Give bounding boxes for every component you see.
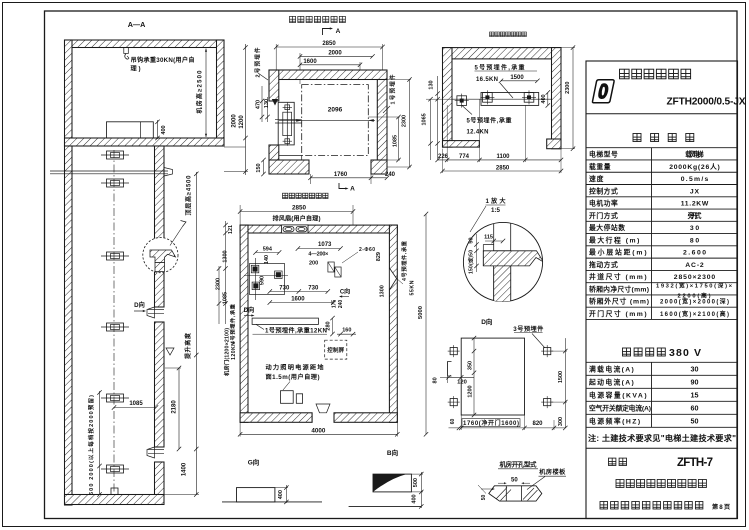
- A-A guide rail bracket 5: [101, 397, 129, 399]
- shaft plan landing door frame outer: [278, 102, 294, 145]
- A-A detail balloon wall stub: [155, 263, 165, 272]
- A-A guide rail bracket 3: [101, 255, 129, 257]
- shaft plan door anchor top: [285, 105, 290, 110]
- svg-text:4000: 4000: [311, 427, 326, 434]
- pit plan right dim 400: [547, 93, 549, 106]
- pit plan title: [490, 32, 495, 37]
- svg-text:开 门 方 式: 开 门 方 式: [589, 211, 618, 220]
- machine room right wall anchor wedge: [389, 268, 396, 290]
- svg-text:1号预埋件,承重12KN: 1号预埋件,承重12KN: [265, 327, 328, 335]
- shaft plan door rails: [275, 119, 302, 121]
- power voltage heading: [623, 348, 631, 356]
- svg-text:30: 30: [690, 225, 699, 232]
- svg-text:D向: D向: [244, 306, 255, 314]
- D-view door opening rect: [461, 338, 524, 415]
- rope hole symbols: [328, 262, 334, 272]
- svg-text:机房门(1200×2100): 机房门(1200×2100): [222, 328, 230, 376]
- svg-text:机房高≥2500: 机房高≥2500: [196, 70, 204, 114]
- svg-text:1500: 1500: [510, 75, 524, 81]
- A-A machine room left wall: [65, 40, 73, 146]
- shaft plan left inner step lines: [279, 155, 302, 157]
- company logo: [592, 80, 614, 103]
- svg-text:2000Kg(26人): 2000Kg(26人): [669, 162, 720, 171]
- title block outline: [586, 61, 738, 519]
- pit plan leader line: [500, 83, 513, 98]
- shaft plan left wall upper: [269, 70, 279, 101]
- svg-text:2000: 2000: [232, 114, 238, 128]
- svg-text:50: 50: [469, 237, 475, 243]
- svg-text:2-Φ60: 2-Φ60: [359, 247, 375, 253]
- svg-text:机房开孔型式: 机房开孔型式: [500, 460, 538, 469]
- svg-text:350: 350: [467, 361, 473, 370]
- shaft plan dim 2850: [276, 46, 382, 48]
- A-A shaft right wall middle: [155, 322, 165, 447]
- D-view anchor bolt 4: [544, 399, 551, 406]
- pit plan bottom dims 226 774 1100: [438, 159, 561, 161]
- svg-text:起动电流(A): 起动电流(A): [588, 378, 634, 387]
- svg-text:5000: 5000: [418, 306, 424, 319]
- svg-text:1065: 1065: [422, 113, 428, 125]
- svg-text:594: 594: [263, 247, 273, 253]
- svg-text:1200: 1200: [239, 115, 245, 129]
- A-A top landing level lines: [50, 170, 168, 172]
- svg-text:A: A: [350, 186, 355, 193]
- machine room left wall: [240, 225, 248, 422]
- svg-text:控 制 方 式: 控 制 方 式: [589, 186, 618, 195]
- pit plan buffer beam: [481, 93, 539, 106]
- svg-text:240: 240: [338, 300, 344, 309]
- svg-text:1085: 1085: [129, 401, 143, 407]
- machine room dim 2850: [240, 211, 353, 213]
- svg-text:730: 730: [308, 286, 319, 292]
- pit plan bottom-left wall block: [443, 141, 480, 148]
- svg-text:120: 120: [457, 380, 467, 386]
- B-view block outline: [373, 474, 411, 492]
- svg-text:A—A: A—A: [128, 20, 146, 29]
- svg-text:1放大: 1放大: [486, 197, 507, 205]
- machine room motor unit frame: [250, 264, 285, 295]
- svg-text:50: 50: [511, 478, 518, 484]
- machine room top wall: [240, 225, 397, 233]
- svg-text:55KN: 55KN: [409, 280, 415, 295]
- machine room plan title: [283, 193, 288, 198]
- machine room exhaust fan vent: [282, 225, 309, 233]
- svg-text:最大行程 (m): 最大行程 (m): [589, 235, 639, 244]
- svg-text:第8页: 第8页: [711, 503, 730, 511]
- svg-text:3号预埋件: 3号预埋件: [513, 325, 544, 333]
- detail floor slab: [483, 251, 543, 266]
- svg-text:60: 60: [450, 419, 456, 425]
- pit plan bottom-right wall block: [547, 139, 561, 149]
- svg-text:机房楼板: 机房楼板: [539, 468, 566, 476]
- svg-text:D向: D向: [134, 301, 145, 309]
- A-A pit floor: [65, 495, 165, 505]
- svg-text:JX: JX: [690, 188, 700, 195]
- svg-text:5号预埋件,承重: 5号预埋件,承重: [475, 64, 525, 72]
- svg-text:300: 300: [558, 417, 564, 426]
- A-A shaft right wall lower: [155, 462, 165, 495]
- A-A guide rail bracket 6: [101, 468, 129, 470]
- svg-text:400: 400: [541, 94, 547, 103]
- svg-text:15: 15: [691, 391, 699, 400]
- svg-text:轿厢内净尺寸(mm): 轿厢内净尺寸(mm): [589, 284, 649, 293]
- svg-text:30: 30: [691, 365, 699, 374]
- pit plan left wall: [443, 48, 453, 148]
- svg-text:774: 774: [459, 154, 470, 160]
- A-A detail balloon sill bracket: [150, 250, 176, 263]
- pit plan anchor plate 2: [483, 93, 493, 103]
- shaft plan section mark A top: [323, 29, 331, 36]
- power table grid: [586, 361, 738, 363]
- svg-text:1932(宽)×1750(深)×: 1932(宽)×1750(深)×: [656, 282, 733, 290]
- svg-text:80: 80: [433, 377, 439, 383]
- svg-text:1100: 1100: [496, 154, 510, 160]
- machine room bottom wall left part: [240, 413, 312, 423]
- svg-text:150(或)50: 150(或)50: [468, 250, 475, 274]
- svg-text:16.5KN: 16.5KN: [476, 77, 498, 83]
- svg-text:50: 50: [691, 417, 699, 426]
- A-A machine room right wall: [217, 40, 225, 146]
- rope hole dim 1073: [298, 248, 341, 250]
- shaft plan bottom-right wall block: [371, 160, 387, 174]
- svg-text:C向: C向: [340, 288, 350, 296]
- shaft plan right wall: [377, 80, 387, 161]
- shaft plan right dim 2300: [409, 80, 411, 168]
- svg-text:175: 175: [331, 300, 337, 309]
- svg-text:井道尺寸 (mm): 井道尺寸 (mm): [589, 272, 647, 281]
- A-A detail balloon circle: [143, 238, 178, 273]
- A-A right side dims 2000 1200: [245, 44, 247, 175]
- shaft plan bottom-left wall block: [269, 160, 309, 174]
- svg-text:ZFTH2000/0.5-JX: ZFTH2000/0.5-JX: [667, 97, 746, 108]
- svg-text:满载电流(A): 满载电流(A): [589, 365, 634, 374]
- svg-text:电源容量(KVA): 电源容量(KVA): [589, 391, 647, 400]
- svg-text:140: 140: [264, 255, 270, 264]
- shaft plan dim 2000: [300, 55, 373, 57]
- G-view dim 400: [285, 485, 287, 503]
- shaft plan car width dim 2096: [279, 119, 375, 121]
- svg-text:1085: 1085: [222, 292, 228, 304]
- svg-text:12.4KN: 12.4KN: [467, 130, 489, 136]
- svg-text:820: 820: [532, 421, 543, 427]
- svg-text:空气开关额定电流(A): 空气开关额定电流(A): [589, 404, 651, 413]
- A-A guide rail bracket 2: [101, 182, 129, 184]
- svg-text:380 V: 380 V: [669, 347, 701, 359]
- A-A dim 1085 horizontal: [114, 407, 156, 409]
- svg-text:G向: G向: [248, 458, 260, 467]
- svg-text:最小层站距(m): 最小层站距(m): [589, 248, 647, 257]
- svg-text:4号预埋件,承重: 4号预埋件,承重: [400, 240, 408, 281]
- technical notes header: [633, 134, 641, 142]
- motor anchor pad 3: [275, 271, 283, 279]
- svg-text:2.600: 2.600: [683, 250, 706, 257]
- svg-text:2180: 2180: [172, 400, 178, 414]
- machine room bottom dim 4000: [240, 433, 397, 435]
- detail circle: [463, 222, 542, 301]
- detail slab step lines: [483, 244, 493, 246]
- svg-text:速 度: 速 度: [589, 174, 604, 183]
- pit plan top wall: [443, 48, 562, 59]
- svg-text:115: 115: [484, 235, 493, 241]
- svg-text:200: 200: [309, 261, 318, 267]
- svg-text:载 重 量: 载 重 量: [589, 162, 611, 171]
- shaft plan title: [290, 16, 296, 22]
- A-A landing level 2 lines: [148, 309, 164, 311]
- D-view dim 1500: [564, 338, 566, 428]
- machine room door sill: [316, 404, 330, 413]
- G-view platform: [237, 488, 275, 502]
- pit plan beam axis line: [452, 98, 552, 100]
- shaft plan dim 1600: [300, 64, 360, 66]
- svg-text:注: 土建技术要求见"电梯土建技术要求": 注: 土建技术要求见"电梯土建技术要求": [588, 433, 736, 443]
- pit plan anchor plate 1: [457, 96, 467, 106]
- A-A machine room floor slab: [65, 138, 225, 146]
- shaft plan right dim 1085: [398, 117, 400, 160]
- civil works note: [586, 447, 738, 449]
- svg-text:2850×2300: 2850×2300: [674, 274, 716, 281]
- junction boxes: [281, 391, 294, 404]
- svg-text:动力照明电源距地: 动力照明电源距地: [266, 364, 325, 372]
- svg-text:电 梯 型 号: 电 梯 型 号: [589, 150, 618, 159]
- svg-text:280: 280: [326, 321, 332, 330]
- svg-text:730: 730: [279, 286, 290, 292]
- svg-text:吊钩承重30KN(用户自: 吊钩承重30KN(用户自: [131, 56, 195, 64]
- shaft plan door centre rod: [286, 107, 288, 141]
- svg-text:载货电梯: 载货电梯: [685, 150, 704, 159]
- pit plan dim 2850: [443, 170, 562, 172]
- drawing title text: [616, 480, 624, 488]
- svg-text:11.2KW: 11.2KW: [681, 201, 709, 208]
- svg-text:1号预埋件: 1号预埋件: [388, 74, 396, 104]
- svg-text:提升高度: 提升高度: [184, 332, 192, 359]
- svg-text:旁开式: 旁开式: [687, 211, 702, 220]
- pit plan dim 1500: [501, 80, 537, 82]
- D-view dim 120: [449, 376, 475, 378]
- machine bedplate: [252, 318, 318, 324]
- svg-text:1400: 1400: [182, 462, 188, 476]
- shaft plan left dims 470 130: [261, 86, 263, 122]
- machine room bottom wall right part: [334, 413, 397, 423]
- svg-text:2096: 2096: [328, 107, 343, 114]
- machine room dim 1600: [270, 302, 334, 304]
- shaft plan landing door frame inner: [283, 112, 292, 135]
- technical spec table grid: [586, 147, 738, 149]
- svg-text:开门尺寸 (mm): 开门尺寸 (mm): [589, 309, 647, 318]
- A-A landing sill upper: [164, 168, 173, 177]
- B-view dim 500: [420, 472, 422, 508]
- svg-text:590: 590: [259, 276, 265, 285]
- D-view anchor bolt 2: [544, 348, 551, 355]
- B-view concrete wedge: [373, 474, 407, 492]
- pit plan right dim 2300: [572, 48, 574, 149]
- shaft plan left wall lower: [269, 145, 279, 160]
- A-A buffer block: [111, 488, 118, 495]
- motor anchor pad 1: [251, 265, 258, 273]
- shaft plan door anchor bottom: [285, 139, 290, 144]
- svg-text:面1.5m(用户自理): 面1.5m(用户自理): [266, 373, 320, 381]
- A-A machine base block: [107, 122, 154, 138]
- A-A shaft centerline: [113, 150, 115, 494]
- A-A detail balloon leader and flag: [170, 227, 183, 246]
- svg-text:829: 829: [376, 252, 382, 261]
- A-A machine room top wall: [65, 40, 225, 48]
- svg-text:90: 90: [691, 378, 699, 387]
- svg-text:1300: 1300: [222, 250, 228, 262]
- svg-text:150: 150: [256, 163, 262, 172]
- svg-text:2850: 2850: [292, 204, 307, 211]
- A-A level datum triangle: [166, 348, 174, 355]
- machine room plan section mark A bottom: [339, 183, 346, 189]
- shaft plan bottom dim 1760: [311, 177, 372, 179]
- control panel dashed box: [325, 340, 347, 359]
- machine room right wall: [389, 225, 397, 422]
- svg-text:2300: 2300: [401, 115, 407, 127]
- B-view baseline: [349, 505, 422, 507]
- pit plan left dims 130 1065: [437, 76, 439, 160]
- detail wall vertical bar: [493, 223, 495, 303]
- svg-text:1760: 1760: [334, 172, 348, 178]
- D-view left bracket: [448, 362, 452, 377]
- svg-text:50: 50: [481, 495, 487, 501]
- hole detail slab shape: [489, 486, 542, 501]
- svg-text:2850: 2850: [496, 165, 510, 171]
- A-A long dimension line right of shaft: [195, 172, 197, 495]
- company name text: [620, 69, 630, 79]
- svg-text:120KN: 120KN: [231, 342, 237, 360]
- svg-text:电源频率(HZ): 电源频率(HZ): [589, 417, 640, 426]
- svg-text:2000: 2000: [328, 51, 342, 57]
- drawing number label: [609, 458, 616, 465]
- A-A machine base height dim 400: [157, 120, 159, 139]
- company name footer: [600, 502, 608, 510]
- A-A landing level 3 lines: [148, 449, 164, 451]
- svg-text:控制屏: 控制屏: [327, 346, 344, 354]
- shaft plan top wall: [269, 70, 387, 80]
- detail balloon leader: [470, 206, 486, 232]
- svg-text:5号预埋件,承重: 5号预埋件,承重: [467, 117, 512, 125]
- machine room dims 730 730: [270, 291, 328, 293]
- svg-text:1:5: 1:5: [491, 207, 501, 214]
- A-A to plan shared dims 121 1300 2300 1085: [225, 221, 227, 324]
- svg-text:2300: 2300: [215, 278, 221, 290]
- shaft plan door opening arrow: [272, 99, 278, 106]
- A-A guide rail bracket 4: [101, 326, 129, 328]
- hole detail leader: [527, 477, 545, 490]
- svg-text:理): 理): [131, 65, 141, 73]
- D-view bottom dims: [449, 427, 566, 429]
- G-view baseline: [222, 501, 322, 503]
- A-A lifting hook: [124, 48, 129, 54]
- A-A shaft left wall: [65, 146, 73, 505]
- svg-text:轿厢外尺寸 (mm): 轿厢外尺寸 (mm): [589, 297, 649, 306]
- svg-text:拖 动 方 式: 拖 动 方 式: [589, 260, 618, 269]
- A-A guide rail bracket 1: [101, 154, 129, 156]
- motor dim 594: [256, 252, 280, 254]
- svg-text:2200(高): 2200(高): [678, 292, 711, 300]
- svg-text:470: 470: [255, 100, 261, 109]
- svg-text:1600: 1600: [303, 59, 317, 65]
- svg-text:2300: 2300: [565, 82, 571, 94]
- svg-text:ZFTH-7: ZFTH-7: [677, 457, 713, 469]
- hole detail hatch strokes: [496, 488, 507, 500]
- svg-text:最大停站数: 最大停站数: [589, 223, 625, 232]
- D-view anchor bolt 1: [450, 348, 457, 355]
- D-view anchor bolt 3: [450, 399, 457, 406]
- svg-text:80: 80: [690, 237, 699, 244]
- A-A left dim line with text 2000 per floor: [99, 391, 101, 495]
- shaft plan bottom dim 240: [371, 177, 387, 179]
- svg-text:A: A: [336, 28, 341, 35]
- svg-text:600 2000(以上每档按2000预留): 600 2000(以上每档按2000预留): [87, 395, 95, 495]
- svg-text:1085: 1085: [392, 135, 398, 147]
- D-view dim 1760 with box: [462, 419, 520, 427]
- svg-text:400: 400: [161, 125, 167, 134]
- title block header divider: [586, 113, 738, 115]
- svg-text:400: 400: [278, 490, 284, 499]
- motor anchor pad 2: [252, 282, 260, 290]
- shaft plan car outline dash-dot: [302, 85, 369, 156]
- svg-text:160: 160: [342, 328, 351, 334]
- svg-text:60: 60: [691, 404, 699, 413]
- svg-text:D向: D向: [481, 317, 493, 326]
- svg-text:121: 121: [228, 225, 234, 234]
- A-A dim 2180: [178, 368, 180, 449]
- svg-text:130: 130: [264, 99, 270, 108]
- A-A shaft right wall upper: [155, 146, 165, 307]
- svg-text:1500: 1500: [558, 371, 564, 383]
- svg-text:130: 130: [429, 80, 435, 89]
- D-view dims 350 1200: [473, 338, 475, 415]
- svg-text:4—200×: 4—200×: [308, 252, 328, 258]
- svg-text:1760(净开门1600): 1760(净开门1600): [463, 419, 519, 427]
- machine room height dim 5000: [425, 214, 427, 434]
- svg-text:2850: 2850: [322, 41, 336, 47]
- A-A machine room height dim line: [205, 49, 207, 138]
- svg-text:1300: 1300: [379, 285, 385, 297]
- svg-text:2号预埋件: 2号预埋件: [253, 47, 261, 77]
- svg-text:1200: 1200: [467, 385, 473, 397]
- svg-text:400: 400: [412, 494, 418, 503]
- pit plan anchor plate 3: [524, 93, 534, 103]
- svg-text:排风扇(用户自理): 排风扇(用户自理): [273, 215, 321, 223]
- A-A dim 1400: [164, 494, 199, 496]
- svg-text:0.5m/s: 0.5m/s: [681, 176, 709, 183]
- svg-text:1073: 1073: [318, 242, 332, 248]
- svg-text:顶层高≥4500: 顶层高≥4500: [185, 175, 193, 216]
- svg-text:AC-2: AC-2: [685, 262, 704, 269]
- svg-text:500: 500: [413, 478, 419, 487]
- svg-text:电 机 功 率: 电 机 功 率: [589, 199, 618, 208]
- svg-text:1600: 1600: [291, 297, 305, 303]
- A-A floor level line to dim: [224, 146, 246, 148]
- svg-text:240: 240: [385, 172, 396, 178]
- pit plan right wall: [552, 48, 562, 149]
- svg-text:B向: B向: [387, 448, 399, 457]
